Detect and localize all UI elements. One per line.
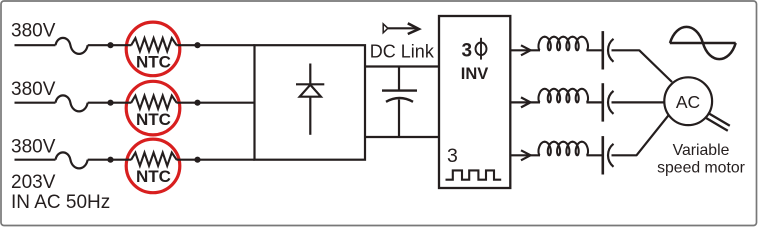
junction dot row 3 left [107,157,113,163]
arrow head row 2 [521,97,531,107]
svg-text:NTC: NTC [136,53,171,72]
DC link top rail [365,65,439,67]
DC link arrow indicator [383,23,419,34]
svg-text:3: 3 [462,40,473,61]
phi symbol [476,38,487,60]
wire row 3 thermistor to rectifier [176,159,254,161]
AC source squiggle row 2 [56,95,88,111]
svg-text:IN AC 50Hz: IN AC 50Hz [11,192,110,213]
junction dot row 1 right [194,42,200,48]
inductor L3 [539,142,589,156]
DC link bottom rail [365,136,439,138]
wire row 3 to motor [612,115,669,156]
inverter box U1 [439,16,510,188]
svg-text:Variable: Variable [673,142,730,159]
junction dot row 2 right [194,100,200,106]
svg-text:3: 3 [447,145,458,167]
wire row 1 left [15,44,56,46]
red highlight circle NTC row 2 [126,81,180,135]
AC source squiggle row 1 [56,38,88,54]
red highlight circle NTC row 1 [126,22,180,76]
wire row 3 to thermistor [88,159,132,161]
series capacitor plates row 3 [603,136,614,174]
square wave symbol [446,170,502,179]
arrow head row 1 [521,45,531,55]
diode D1 inside rectifier [296,64,324,135]
svg-text:380V: 380V [11,79,56,100]
motor shaft double line [706,113,730,131]
output wire row 2 with arrow [510,101,540,103]
wire row 1 to thermistor [88,44,132,46]
AC motor M1 [664,77,712,125]
svg-text:NTC: NTC [136,110,171,129]
thermistor resistor row 3 [131,153,176,166]
svg-text:DC Link: DC Link [370,41,435,61]
svg-text:speed motor: speed motor [657,159,745,176]
inductor L1 [539,37,589,51]
wire row 3 left [15,159,56,161]
junction dot row 3 right [194,157,200,163]
rectifier box [255,45,366,160]
junction dot row 1 left [107,42,113,48]
DC link capacitor C1 [382,67,417,138]
svg-text:AC: AC [676,92,700,112]
output wire row 1 with arrow [510,49,540,51]
svg-text:INV: INV [461,65,489,83]
svg-text:380V: 380V [11,136,56,157]
svg-text:380V: 380V [11,21,56,42]
output wire row 3 with arrow [510,154,540,156]
svg-text:203V: 203V [11,172,56,193]
wire after L1 [586,49,602,51]
wire row 2 to motor [612,101,665,103]
wire row 1 thermistor to rectifier [176,44,254,46]
wire row 2 left [15,102,56,104]
wire after L3 [586,154,602,156]
wire row 2 thermistor to rectifier [176,102,254,104]
inductor L2 [539,89,589,103]
AC source squiggle row 3 [56,152,88,168]
wire row 1 to motor [612,50,673,82]
wire row 2 to thermistor [88,102,132,104]
arrow head row 3 [521,150,531,160]
thermistor resistor row 2 [131,96,176,109]
svg-text:NTC: NTC [136,167,171,186]
junction dot row 2 left [107,100,113,106]
wire after L2 [586,101,602,103]
series capacitor plates row 1 [603,31,614,69]
output sine wave symbol [670,27,736,59]
series capacitor plates row 2 [603,83,614,121]
red highlight circle NTC row 3 [126,139,180,193]
thermistor resistor row 1 [131,38,176,51]
